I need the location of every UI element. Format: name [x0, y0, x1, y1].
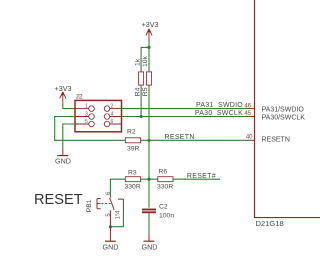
- node junction R4/SWCLK: [140, 115, 143, 118]
- svg-text:R3: R3: [128, 170, 137, 177]
- node junction PB1/GND: [109, 225, 112, 228]
- resistor R6 330R: [157, 169, 173, 191]
- node junction top: [147, 46, 150, 49]
- svg-text:RESET#: RESET#: [187, 173, 216, 180]
- svg-text:10k: 10k: [142, 55, 149, 67]
- pin 6: [104, 121, 110, 127]
- pin 5 lead: [109, 210, 111, 226]
- wire net PA31 SWDIO (J2 pin2 to IC pin 46): [122, 108, 250, 110]
- svg-text:46: 46: [244, 104, 251, 110]
- node junction R2/R5/RESETN: [147, 139, 150, 142]
- IC pin 40 RESETN: [246, 134, 290, 143]
- pushbutton PB1: [86, 191, 124, 227]
- svg-text:330R: 330R: [125, 184, 141, 191]
- svg-text:PA31 SWDIO: PA31 SWDIO: [196, 102, 243, 109]
- svg-text:C2: C2: [159, 203, 168, 210]
- pin 2: [104, 106, 110, 112]
- wire R3 left to PB1: [110, 179, 125, 194]
- wire top horizontal to R4: [141, 47, 149, 58]
- pin 5: [89, 121, 95, 127]
- svg-text:2: 2: [111, 104, 114, 110]
- resistor R4 1k: [135, 58, 144, 96]
- wire RESETN down to R3/R6 row: [148, 140, 150, 179]
- IC pin 45 PA30/SWCLK: [244, 111, 305, 122]
- svg-text:J2: J2: [76, 94, 83, 101]
- svg-text:GND: GND: [103, 242, 119, 251]
- svg-text:RESET: RESET: [34, 192, 83, 208]
- pin 4: [104, 114, 110, 120]
- ground GND under C2: [142, 234, 158, 251]
- resistor R5 10k: [142, 55, 151, 96]
- svg-text:1k: 1k: [135, 58, 142, 66]
- connector J2: [75, 94, 122, 132]
- wire J2 pin5 to GND left: [63, 124, 75, 149]
- node junction R3/R6 row: [147, 178, 150, 181]
- svg-text:GND: GND: [142, 242, 158, 251]
- svg-text:GND: GND: [55, 157, 71, 166]
- second pole contact 1*4: [118, 199, 123, 211]
- pin 6 lead: [109, 194, 111, 197]
- svg-text:RESETN: RESETN: [165, 134, 195, 141]
- J2 internal pin stubs: [75, 109, 122, 124]
- wire net RESETN (R2 right to IC pin 40): [141, 139, 250, 141]
- svg-text:PA30 SWCLK: PA30 SWCLK: [195, 110, 243, 117]
- svg-text:D21G18: D21G18: [256, 219, 284, 228]
- svg-text:40: 40: [246, 134, 253, 140]
- wire J2 pin3 to R2 left: [55, 117, 126, 141]
- wire +3V3 left to J2 pin1: [63, 103, 75, 109]
- actuator E with dashed link: [97, 199, 101, 209]
- wire +3V3 top to junction: [148, 39, 150, 47]
- wire C2 bottom to GND: [148, 213, 150, 234]
- svg-text:R6: R6: [159, 169, 168, 176]
- svg-text:+3V3: +3V3: [142, 20, 159, 29]
- wire net PA30 SWCLK (J2 pin4 to IC pin 45): [122, 116, 250, 118]
- svg-text:330R: 330R: [157, 184, 173, 191]
- svg-text:PA31/SWDIO: PA31/SWDIO: [262, 107, 305, 114]
- svg-text:R4: R4: [135, 87, 142, 96]
- svg-text:45: 45: [244, 111, 251, 117]
- resistor R3 330R: [125, 170, 141, 191]
- op-amp/IC D21G18 boundary: [255, 0, 320, 218]
- svg-text:PA30/SWCLK: PA30/SWCLK: [262, 115, 306, 122]
- wire R4 top lead: [140, 58, 142, 72]
- svg-text:PB1: PB1: [86, 199, 93, 212]
- power +3V3 top symbol: [142, 20, 159, 41]
- svg-text:39R: 39R: [127, 146, 140, 153]
- svg-text:6: 6: [111, 119, 114, 125]
- svg-text:1: 1: [85, 104, 88, 110]
- svg-text:R2: R2: [127, 129, 136, 136]
- wire R4 bottom lead to SWCLK row: [140, 85, 142, 116]
- IC pin 46 PA31/SWDIO: [244, 104, 304, 114]
- power +3V3 left symbol: [55, 84, 72, 103]
- wire net RESET# (R6 right, dangling): [173, 178, 220, 180]
- svg-text:R5: R5: [142, 87, 149, 96]
- svg-text:RESETN: RESETN: [262, 137, 290, 144]
- pin 3: [89, 114, 95, 120]
- wire R5 bottom lead to RESETN row: [148, 85, 150, 140]
- wire R5 top lead: [148, 47, 150, 72]
- svg-text:1*4: 1*4: [115, 210, 121, 220]
- pin 1: [89, 106, 95, 112]
- svg-text:100n: 100n: [159, 212, 174, 219]
- svg-text:5: 5: [85, 119, 88, 125]
- capacitor C2 100n: [142, 179, 174, 219]
- lever: [110, 198, 115, 210]
- ground GND left: [55, 149, 71, 166]
- wire R3 right to junction: [141, 178, 158, 180]
- svg-text:3: 3: [85, 112, 88, 118]
- resistor R2 39R: [125, 129, 140, 153]
- svg-text:+3V3: +3V3: [55, 84, 72, 93]
- svg-text:4: 4: [111, 112, 114, 118]
- ground GND under PB1: [103, 227, 119, 252]
